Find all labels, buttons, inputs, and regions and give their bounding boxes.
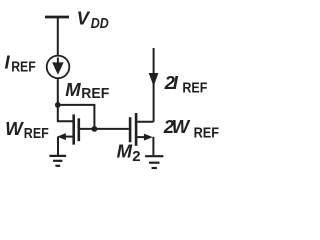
M2 source lead [137, 136, 144, 138]
current source arrow shaft [57, 58, 59, 65]
wire M2 source to ground [152, 137, 154, 156]
svg-text:I: I [173, 72, 179, 93]
svg-text:I: I [5, 52, 11, 73]
wire MREF gate to M2 gate [80, 128, 129, 130]
MREF source arrow (NMOS) [57, 133, 66, 140]
transistor M2 gate plate [129, 117, 132, 142]
svg-text:2: 2 [132, 148, 140, 165]
node A junction dot [55, 102, 61, 108]
wire VDD bar to current source [57, 17, 59, 56]
right ground bar 3 [152, 167, 157, 169]
current direction arrowhead 2IREF [149, 73, 159, 86]
svg-text:DD: DD [91, 16, 109, 32]
transistor MREF gate plate [78, 118, 81, 141]
left ground bar 3 [55, 165, 60, 167]
current source arrowhead [52, 62, 64, 74]
right ground bar 2 [149, 162, 160, 164]
transistor MREF channel plate [72, 114, 75, 144]
M2 source arrow (NMOS) [144, 134, 153, 141]
VDD supply bar [45, 16, 69, 19]
node B junction dot [92, 126, 98, 132]
wire 2IREF branch vertical [153, 48, 155, 122]
left ground bar 1 [49, 155, 66, 157]
right ground bar 1 [145, 155, 163, 157]
svg-text:REF: REF [11, 60, 36, 76]
svg-text:M: M [65, 79, 81, 100]
svg-text:V: V [77, 7, 91, 28]
svg-text:REF: REF [182, 81, 207, 97]
current source IREF circle [47, 56, 70, 79]
svg-text:REF: REF [194, 126, 220, 142]
wire node A to drain corner (diode connection top) [58, 105, 95, 129]
svg-text:REF: REF [81, 86, 109, 102]
wire current source to node A [57, 78, 59, 105]
left ground bar 2 [53, 160, 62, 162]
svg-text:M: M [117, 141, 133, 162]
svg-text:W: W [5, 118, 24, 139]
MREF source lead [64, 136, 73, 138]
svg-text:REF: REF [24, 126, 49, 142]
M2 drain lead [137, 121, 153, 123]
transistor M2 channel plate [135, 113, 138, 146]
svg-text:W: W [172, 116, 191, 137]
wire MREF source to ground [57, 137, 59, 155]
wire node A down to MREF drain lead [58, 105, 73, 121]
